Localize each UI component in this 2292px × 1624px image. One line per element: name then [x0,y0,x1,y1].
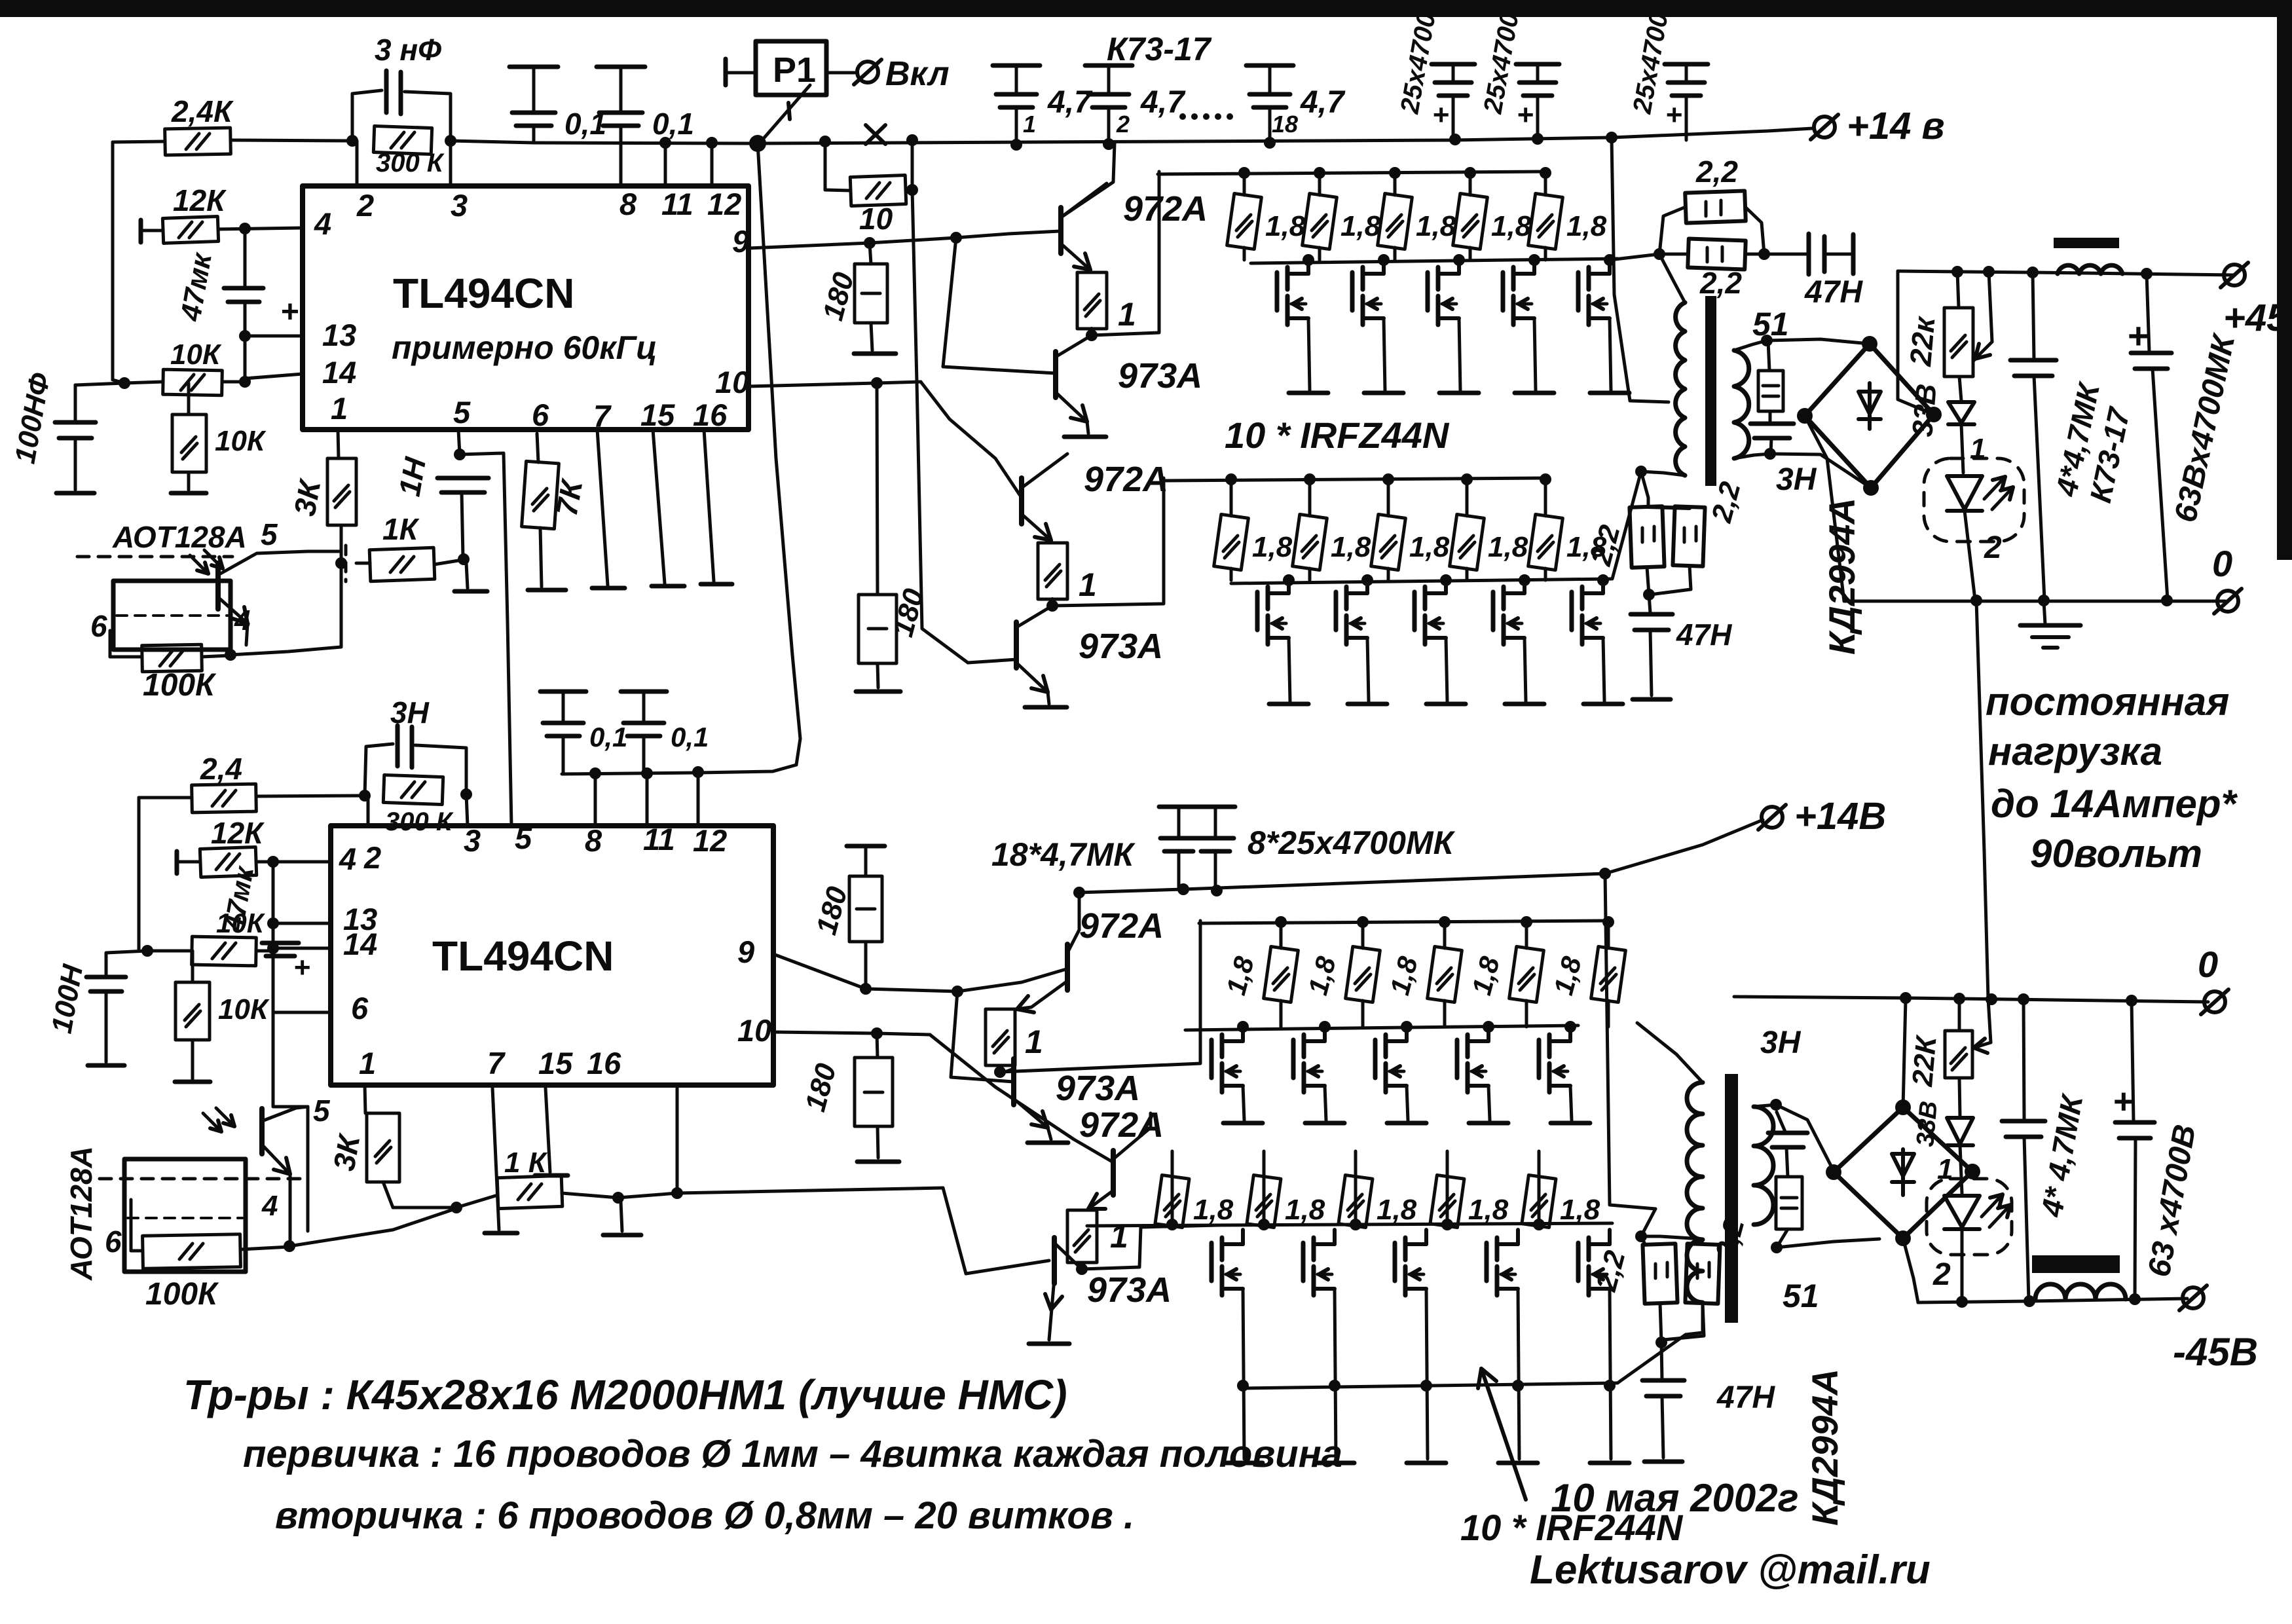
svg-text:4: 4 [314,206,331,241]
svg-text:1,8: 1,8 [1285,1194,1325,1226]
svg-text:5: 5 [313,1094,331,1128]
svg-text:972А: 972А [1084,460,1168,499]
svg-text:47мк: 47мк [174,249,218,323]
svg-text:+: + [1517,99,1534,131]
svg-text:Тр-ры : К45х28х16 М2000Н: Тр-ры : К45х28х16 М2000НМ1 (лучше НМС) [183,1371,1067,1418]
svg-text:6: 6 [351,991,369,1025]
svg-text:1: 1 [1970,433,1986,465]
svg-text:10 * IRFZ44N: 10 * IRFZ44N [1225,415,1450,456]
svg-text:180: 180 [810,883,853,938]
svg-text:7: 7 [487,1046,506,1080]
svg-text:2,2: 2,2 [1699,266,1742,300]
svg-text:90вольт: 90вольт [2030,832,2202,876]
svg-text:2,2: 2,2 [1585,521,1627,569]
svg-text:6: 6 [105,1225,122,1259]
svg-text:18: 18 [1272,111,1298,138]
svg-text:TL494CN: TL494CN [432,932,614,980]
svg-text:3Н: 3Н [1776,462,1817,497]
svg-text:16: 16 [693,397,728,432]
svg-text:7: 7 [593,399,612,434]
svg-text:4,7: 4,7 [1047,85,1093,120]
svg-text:-45В: -45В [2173,1330,2258,1374]
svg-text:АОТ128А: АОТ128А [112,520,247,554]
svg-text:51: 51 [1752,306,1789,342]
svg-text:1,8: 1,8 [1466,953,1506,998]
svg-text:TL494CN: TL494CN [393,270,574,317]
svg-text:6: 6 [532,397,549,432]
svg-text:4: 4 [234,604,250,637]
svg-text:0,1: 0,1 [652,107,694,141]
svg-text:1,8: 1,8 [1384,953,1424,998]
svg-text:1,8: 1,8 [1416,210,1456,242]
svg-text:10 мая 2002г: 10 мая 2002г [1551,1476,1799,1520]
svg-text:10: 10 [715,365,749,399]
svg-text:5: 5 [515,821,532,855]
svg-text:5: 5 [453,395,471,430]
svg-text:0: 0 [2198,944,2218,985]
svg-text:10К: 10К [218,993,270,1025]
svg-text:15: 15 [640,397,675,432]
svg-text:8*25х4700МК: 8*25х4700МК [1248,824,1456,861]
svg-text:4,7: 4,7 [1140,85,1186,120]
svg-text:К73-17: К73-17 [1107,31,1212,67]
svg-text:3К: 3К [287,476,327,519]
svg-text:10К: 10К [170,339,222,371]
svg-text:51: 51 [1783,1278,1819,1314]
svg-text:4* 4,7МК: 4* 4,7МК [2034,1091,2089,1220]
svg-text:100К: 100К [145,1277,219,1312]
svg-text:постоянная: постоянная [1986,680,2229,724]
svg-text:2: 2 [356,188,374,223]
svg-text:15: 15 [538,1046,573,1080]
svg-text:10К: 10К [216,908,266,938]
svg-text:1: 1 [331,391,348,426]
svg-text:1,8: 1,8 [1252,531,1293,563]
svg-text:5: 5 [261,517,278,551]
svg-text:12К: 12К [211,816,265,850]
svg-text:АОТ128А: АОТ128А [64,1146,98,1281]
svg-text:9: 9 [732,224,749,259]
svg-text:примерно 60кГц: примерно 60кГц [392,329,657,366]
svg-text:14: 14 [343,927,377,961]
svg-text:973А: 973А [1087,1270,1172,1310]
svg-text:972А: 972А [1079,906,1164,946]
svg-text:нагрузка: нагрузка [1988,729,2162,773]
svg-text:180: 180 [799,1060,842,1115]
svg-text:33В: 33В [1912,1100,1943,1148]
svg-text:1,8: 1,8 [1468,1194,1509,1226]
svg-text:1: 1 [1023,111,1036,138]
svg-text:8: 8 [619,187,637,221]
svg-text:8: 8 [585,823,602,858]
svg-text:10: 10 [859,202,893,236]
svg-text:10К: 10К [215,425,267,457]
svg-text:100Н: 100Н [46,961,90,1035]
svg-text:до 14Ампер*: до 14Ампер* [1991,782,2238,826]
svg-text:47Н: 47Н [1716,1380,1775,1415]
svg-text:100НФ: 100НФ [9,370,57,466]
svg-text:1К: 1К [382,512,420,546]
svg-text:+: + [1665,99,1682,131]
svg-text:63 х4700В: 63 х4700В [2142,1122,2203,1280]
svg-text:9: 9 [737,934,754,969]
svg-text:вторичка : 6 проводов Ø 0,: вторичка : 6 проводов Ø 0,8мм – 20 витко… [275,1494,1134,1537]
svg-text:0: 0 [2212,543,2232,584]
svg-text:7К: 7К [549,476,589,519]
svg-text:2: 2 [1932,1257,1951,1292]
svg-text:16: 16 [587,1046,621,1080]
svg-text:4: 4 [339,841,356,876]
svg-text:3Н: 3Н [1760,1025,1802,1060]
svg-text:3К: 3К [327,1131,367,1173]
svg-text:+: + [2113,1082,2134,1121]
svg-text:3: 3 [464,823,481,858]
svg-text:1,8: 1,8 [1220,953,1260,998]
svg-text:3: 3 [451,188,468,223]
svg-text:2: 2 [1116,111,1130,138]
svg-text:2,2: 2,2 [1590,1247,1632,1295]
svg-text:первичка : 16 проводов Ø: первичка : 16 проводов Ø 1мм – 4витка ка… [243,1433,1342,1475]
svg-text:1,8: 1,8 [1547,953,1587,998]
svg-text:Lektusarov @mail.ru: Lektusarov @mail.ru [1530,1547,1931,1593]
svg-text:1,8: 1,8 [1491,210,1532,242]
svg-text:1,8: 1,8 [1193,1194,1234,1226]
svg-text:22К: 22К [1906,1033,1943,1088]
svg-text:2: 2 [363,840,381,875]
svg-text:972А: 972А [1123,189,1208,229]
svg-text:1,8: 1,8 [1340,210,1381,242]
svg-text:300 К: 300 К [385,807,454,836]
svg-text:+: + [1432,99,1449,131]
svg-text:1,8: 1,8 [1302,953,1342,998]
svg-text:1,8: 1,8 [1377,1194,1417,1226]
svg-text:+: + [280,295,299,329]
svg-text:4,7: 4,7 [1300,85,1346,120]
svg-text:12: 12 [693,823,727,858]
svg-text:14: 14 [322,355,356,390]
svg-text:11: 11 [661,187,693,221]
svg-text:100К: 100К [143,668,217,703]
svg-text:Вкл: Вкл [885,55,950,93]
svg-text:+14В: +14В [1794,795,1886,838]
svg-text:1Н: 1Н [392,454,433,499]
svg-text:300 К: 300 К [376,149,445,177]
svg-text:КД2994А: КД2994А [1804,1369,1845,1526]
svg-text:18*4,7МК: 18*4,7МК [991,836,1136,873]
svg-text:10: 10 [737,1013,771,1048]
svg-text:973А: 973А [1118,356,1202,396]
svg-text:1,8: 1,8 [1409,531,1450,563]
svg-text:+: + [2127,315,2149,356]
svg-text:1,8: 1,8 [1488,531,1528,563]
svg-text:1: 1 [1079,566,1097,603]
svg-text:+: + [293,951,310,984]
svg-text:в: в [2279,315,2292,347]
svg-text:13: 13 [322,318,356,352]
svg-text:6: 6 [90,609,107,643]
svg-text:1: 1 [1110,1218,1128,1255]
svg-text:0,1: 0,1 [589,722,627,752]
svg-text:3 нФ: 3 нФ [375,33,441,67]
svg-text:12К: 12К [173,183,227,217]
svg-text:12: 12 [707,187,741,221]
svg-text:22к: 22к [1903,314,1942,367]
svg-text:4: 4 [261,1190,278,1222]
svg-text:973А: 973А [1056,1069,1140,1108]
svg-text:63Вх4700МК: 63Вх4700МК [2168,330,2242,525]
svg-text:1,8: 1,8 [1560,1194,1600,1226]
svg-text:33В: 33В [1906,382,1943,438]
svg-text:1,8: 1,8 [1265,210,1306,242]
svg-text:47Н: 47Н [1804,275,1863,310]
svg-text:2: 2 [1984,530,2002,565]
svg-text:1,8: 1,8 [1331,531,1371,563]
svg-text:2,4К: 2,4К [171,94,234,128]
svg-text:2,4: 2,4 [200,752,242,786]
svg-text:0,1: 0,1 [671,722,709,752]
svg-text:1: 1 [359,1046,376,1080]
svg-text:1: 1 [1118,296,1136,333]
svg-text:2,2: 2,2 [1695,155,1738,189]
svg-text:1: 1 [1025,1024,1043,1060]
svg-text:+14 в: +14 в [1847,105,1945,147]
svg-text:973А: 973А [1079,627,1163,666]
svg-text:47Н: 47Н [1676,618,1732,652]
svg-text:1,8: 1,8 [1566,210,1607,242]
